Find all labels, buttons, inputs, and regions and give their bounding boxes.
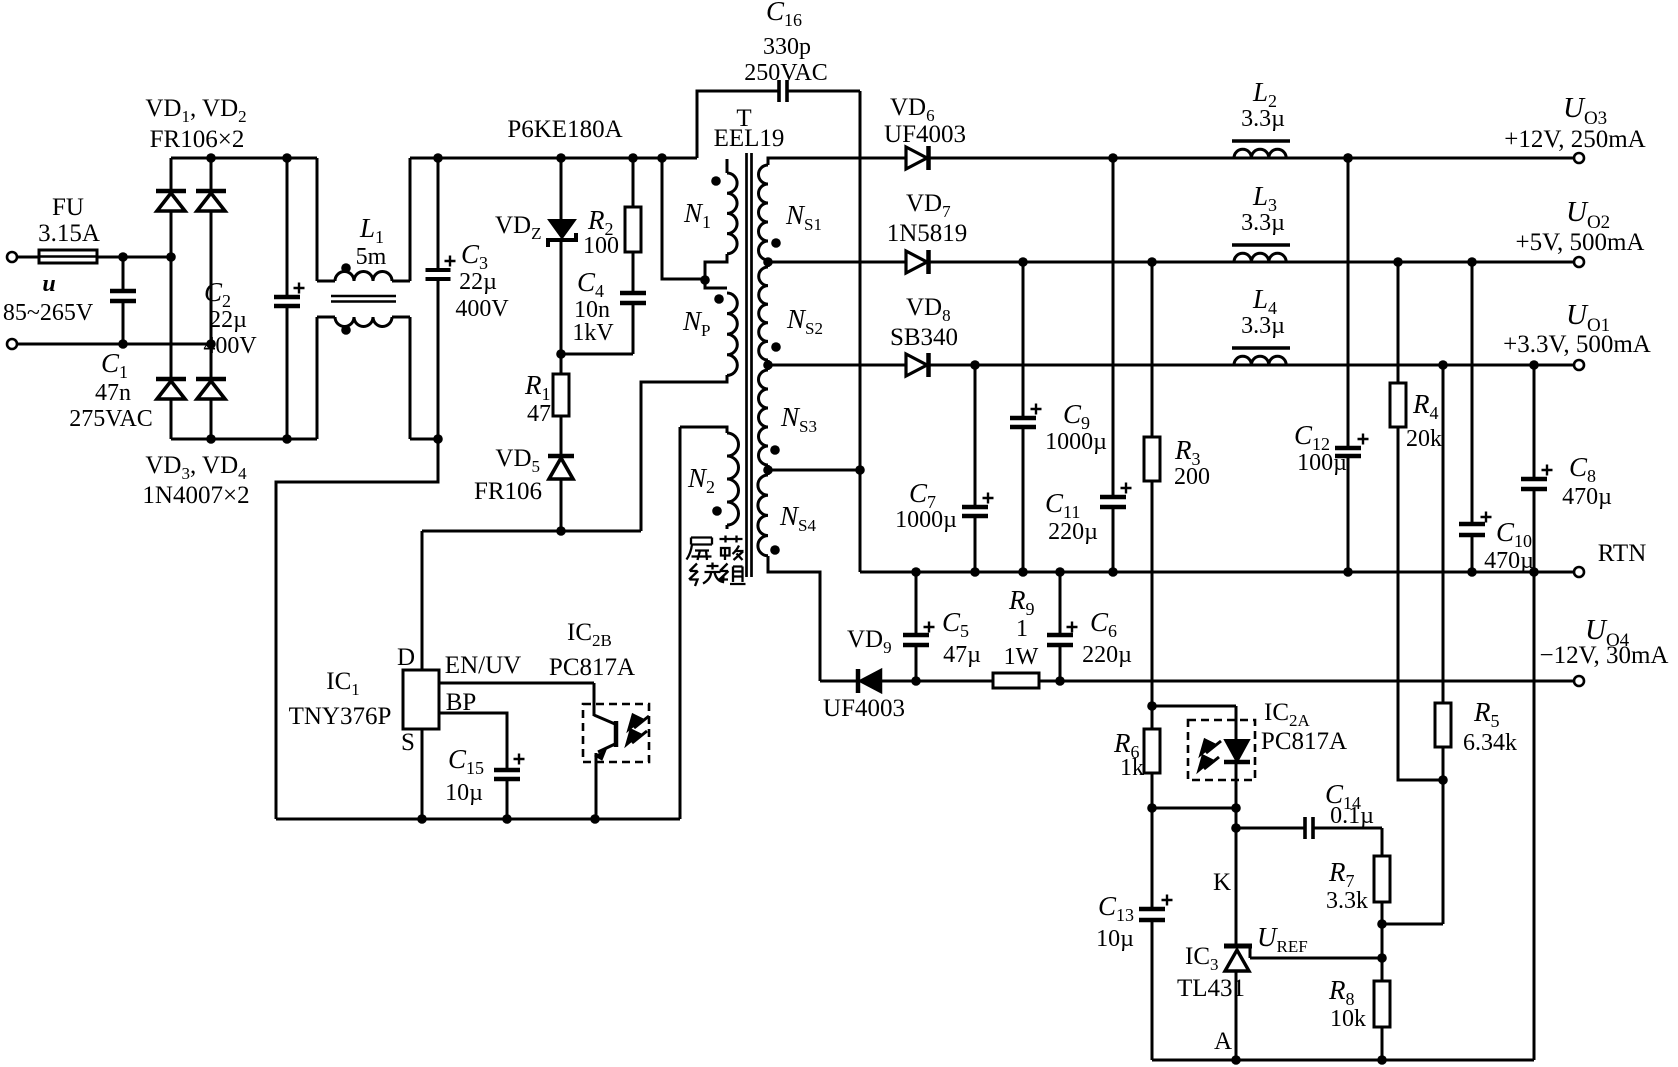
wire R4 to R5 node [1398,427,1443,780]
capacitor C13 10u [1151,808,1154,909]
diode VD1 [156,189,186,194]
L2 core bar [1232,139,1290,142]
node S [417,814,427,824]
inductor L2 3.3u [1233,157,1235,159]
svg-text:1000µ: 1000µ [1045,429,1107,455]
diode VD5 FR106 [548,454,574,459]
wire NS3/NS4 to RTN drop [768,469,860,472]
node UREF [1377,953,1387,963]
svg-text:3.3µ: 3.3µ [1241,106,1285,132]
node C12 bottom [1343,567,1353,577]
svg-text:22µ: 22µ [459,269,497,295]
node NS3/NS4 [763,465,773,475]
node R6 top [1147,701,1157,711]
wire to R5 chain [1382,923,1443,926]
NP polarity dot [714,294,724,304]
wire R6 to node [1151,773,1154,808]
terminal UO4 [1574,676,1584,686]
wire NS1-NS2 junction [767,260,770,267]
L4 core bar [1232,346,1290,349]
node C1 top [118,252,128,262]
svg-text:250VAC: 250VAC [744,60,828,86]
svg-text:330p: 330p [763,34,811,60]
wire NS4 path to VD9 [820,680,858,683]
wire BP to C15 [439,713,507,770]
wire NP bottom to drain line [641,375,727,531]
wire VDZ to node [560,240,563,354]
svg-text:470µ: 470µ [1562,484,1612,510]
resistor R4 20k [1390,383,1406,427]
svg-text:0.1µ: 0.1µ [1330,803,1374,829]
wire VD9 to R9 [881,680,993,683]
wire R4 from +5V [1397,262,1400,383]
capacitor C2 22u 400V [286,158,289,297]
node LED cathode [1231,803,1241,813]
wire -12V line [1039,680,1573,683]
LED IC2A [1235,706,1238,740]
diode VD8 SB340 [906,354,927,376]
wire N2 open stub [726,525,729,529]
node C10 top [1467,257,1477,267]
svg-text:6.34k: 6.34k [1463,730,1517,756]
wire fuse to bridge node [97,256,171,259]
wire R5 bottom [1442,747,1445,924]
wire N1 bottom to NP top [705,254,727,288]
capacitor C1 47n 275VAC [122,257,125,291]
wire feedback ground rail [1152,1059,1534,1062]
node R6 bottom [1147,803,1157,813]
node R4/R5 [1438,775,1448,785]
svg-text:220µ: 220µ [1082,642,1132,668]
diode VD4 [196,377,226,382]
svg-text:1: 1 [1016,616,1028,642]
node R4 top [1393,257,1403,267]
svg-text:+5V, 500mA: +5V, 500mA [1516,229,1645,256]
wire S to ground rail [421,729,424,819]
node C3 bottom [433,434,443,444]
node C6 top [1055,567,1065,577]
svg-text:1W: 1W [1004,644,1039,670]
shunt regulator IC3 TL431 [1224,944,1252,949]
svg-text:FR106×2: FR106×2 [150,126,245,153]
capacitor C14 0.1u [1303,817,1307,839]
wire TL431 anode [1235,971,1238,1060]
wire VD4 column [210,344,213,379]
node K branch [1231,823,1241,833]
wire +5V rail [768,261,1573,264]
node NS2/NS3 [763,360,773,370]
N1 polarity dot [711,176,721,186]
node bridge AC1 [166,252,176,262]
wire L1 bottom-right lead [392,316,410,319]
resistor R6 1k [1144,729,1160,773]
transformer core line 2 [750,153,753,577]
svg-text:+12V, 250mA: +12V, 250mA [1504,126,1645,153]
node C2 top [282,153,292,163]
resistor R7 3.3k [1374,856,1390,902]
svg-text:PC817A: PC817A [1261,728,1347,755]
wire +3.3V rail [768,364,1573,367]
svg-text:275VAC: 275VAC [69,406,153,432]
wire L1 bottom-left lead [316,317,319,439]
svg-text:100: 100 [583,233,619,259]
diode VD7 1N5819 [906,251,927,273]
node clamp mid [556,349,566,359]
NS3 polarity dot [770,445,780,455]
capacitor C10 470u [1471,262,1474,524]
node on RTN drop [855,465,865,475]
svg-text:VD3, VD4: VD3, VD4 [145,452,247,483]
svg-text:47µ: 47µ [943,642,981,668]
terminal UO2 [1574,257,1584,267]
terminal UO3 [1574,153,1584,163]
node C15 bottom [502,814,512,824]
node R5 top [1438,360,1448,370]
svg-text:VD1, VD2: VD1, VD2 [145,95,246,126]
wire R7 to R8 [1381,902,1384,981]
diode VD9 UF4003 [856,669,861,693]
node VD4 bottom [206,434,216,444]
optocoupler IC2A dashed box [1188,720,1255,780]
wire DC+ rail (bridge) [171,157,317,160]
svg-text:470µ: 470µ [1484,548,1534,574]
node VD5 drain [556,526,566,536]
phototransistor IC2B [593,683,596,716]
node C5 bottom [911,676,921,686]
IC2B light arrows [627,715,649,744]
svg-text:A: A [1214,1028,1232,1055]
svg-text:47: 47 [527,401,551,427]
resistor R5 6.34k [1435,703,1451,747]
svg-text:85~265V: 85~265V [3,300,94,326]
wire VD3 column [170,257,173,379]
diode VD6 UF4003 [906,147,927,169]
capacitor C12 100u [1347,158,1350,448]
svg-text:EN/UV: EN/UV [445,652,521,679]
wire HV+ rail [410,157,697,160]
wire R8 bottom [1381,1027,1384,1060]
label 绕组 (winding) [689,563,746,587]
node R7/R5 [1377,919,1387,929]
wire L1 bottom to C3 node [410,438,438,441]
capacitor C5 47u [915,572,918,635]
winding NS2 [759,267,768,360]
svg-text:RTN: RTN [1598,540,1647,567]
node C9 top [1018,257,1028,267]
node C7 bottom [970,567,980,577]
NS1 polarity dot [771,238,781,248]
inductor L1 bottom winding [335,317,392,327]
wire C4 bottom to clamp node [561,353,633,356]
svg-text:220µ: 220µ [1048,519,1098,545]
svg-text:3.3µ: 3.3µ [1241,313,1285,339]
winding NS3 [759,370,769,465]
svg-text:400V: 400V [455,296,509,322]
svg-text:1N4007×2: 1N4007×2 [142,482,249,509]
wire input line2 [17,343,211,346]
wire NS2-NS3 junction [767,360,770,370]
svg-text:P6KE180A: P6KE180A [507,116,622,143]
node bridge AC2 [206,339,216,349]
L1 core line lower [331,300,396,303]
svg-text:100µ: 100µ [1297,450,1347,476]
capacitor C3 22u 400V [437,158,440,270]
wire N1 top stub [726,159,729,173]
node TL431 anode [1231,1055,1241,1065]
wire VD2 column top [210,158,213,191]
node NS1/NS2 [763,257,773,267]
node C5 top [911,567,921,577]
svg-text:EEL19: EEL19 [714,125,785,152]
svg-text:K: K [1213,869,1231,896]
input terminal lower [7,339,17,349]
wire RTN rail [860,571,1573,574]
svg-text:10k: 10k [1330,1006,1366,1032]
svg-text:200: 200 [1174,464,1210,490]
node R3 top [1147,257,1157,267]
wire drain to IC1 [421,531,424,670]
svg-text:47n: 47n [95,380,131,406]
capacitor C7 1000u [974,365,977,507]
svg-text:FR106: FR106 [474,478,542,505]
wire L1 top-left lead [316,158,319,281]
winding NP [727,293,737,375]
svg-text:3.3µ: 3.3µ [1241,210,1285,236]
wire VD4 anode to rail [210,399,213,439]
wire VDZ from rail [560,158,563,220]
node N1-NP junction [700,275,710,285]
svg-text:−12V, 30mA: −12V, 30mA [1540,642,1669,669]
wire C16 right down to RTN [859,91,862,572]
wire R1 to VD5 [560,416,563,456]
winding NS4 [758,475,768,556]
node C12 top [1343,153,1353,163]
capacitor C9 1000u [1022,262,1025,418]
svg-text:1k: 1k [1120,755,1144,781]
capacitor C8 470u [1533,365,1536,479]
wire return jog to IC1 rail [276,439,438,819]
node R8 bottom [1377,1055,1387,1065]
resistor R9 1 1W [993,673,1039,688]
wire VD5 to drain line [560,479,563,531]
L1 polarity dot top [341,263,351,273]
wire VD1 column top [170,158,173,191]
L3 core bar [1232,243,1290,246]
wire EN/UV to opto [439,682,594,685]
node VD2 top [206,153,216,163]
wire to R6 [1151,706,1154,729]
resistor R8 10k [1374,981,1390,1027]
node C10 bottom [1467,567,1477,577]
svg-text:+3.3V, 500mA: +3.3V, 500mA [1503,331,1651,358]
winding N1 [727,173,737,254]
node opto emitter [590,814,600,824]
wire primary ground rail [276,818,680,821]
wire to C14 [1236,827,1305,830]
node C2 bottom [282,434,292,444]
wire C14 to R7 [1381,828,1384,856]
LED light arrows [1199,740,1221,770]
L1 core line upper [331,295,396,298]
diode VD3 [156,377,186,382]
wire VD1 anode [170,211,173,257]
inductor L3 3.3u [1233,261,1235,263]
wire shield to source rail [679,427,682,819]
svg-text:5m: 5m [356,244,387,270]
resistor R3 200 [1144,437,1160,481]
wire NS4 bottom to VD9 [768,556,820,681]
node C11 top [1108,153,1118,163]
svg-text:1000µ: 1000µ [895,507,957,533]
inductor L4 3.3u [1233,364,1235,366]
label 屏蔽 (shield) [687,536,744,561]
svg-text:3.15A: 3.15A [38,220,100,247]
svg-text:UF4003: UF4003 [884,121,966,148]
wire N2 top lead [680,427,727,433]
node VDZ top [556,153,566,163]
wire DC- rail (bridge) [171,438,317,441]
input terminal upper [7,252,17,262]
L1 polarity dot bottom [341,325,351,335]
svg-text:20k: 20k [1406,426,1442,452]
wire R2 to C4 [632,252,635,293]
svg-text:SB340: SB340 [890,324,958,351]
svg-text:u: u [42,271,55,297]
node C7 top [970,360,980,370]
svg-text:3.3k: 3.3k [1326,888,1368,914]
node C11 bottom [1108,567,1118,577]
resistor R2 100 [625,207,641,252]
wire NS3-NS4 junction [767,465,770,475]
fuse FU 3.15A [39,250,97,263]
capacitor C4 10n 1kV [620,291,646,296]
wire L1 top-right lead [392,280,410,283]
svg-text:400V: 400V [203,333,257,359]
wire input line1 to fuse [17,256,39,259]
node C6 bottom [1055,676,1065,686]
svg-text:PC817A: PC817A [549,654,635,681]
transformer core line 1 [745,153,748,577]
svg-text:TNY376P: TNY376P [289,703,392,730]
node C8 top [1529,360,1539,370]
wire R3 down to feedback [1151,481,1154,706]
capacitor C15 10u [494,768,520,773]
svg-text:1kV: 1kV [572,320,614,346]
node to NP [657,153,667,163]
svg-text:10µ: 10µ [1096,926,1134,952]
inductor L1 top winding [335,272,392,282]
diode VD2 [196,189,226,194]
capacitor C11 220u [1112,158,1115,497]
wire LED cathode link [1152,807,1236,810]
winding N2 (shield) [727,433,739,525]
NS2 polarity dot [771,342,781,352]
optocoupler IC2B dashed box [583,704,649,762]
IC U1 TNY376P box [403,670,439,729]
node C8/RTN [1529,567,1539,577]
svg-text:S: S [401,729,415,756]
winding NS1 [759,165,769,260]
svg-text:D: D [397,644,415,671]
resistor R1 47 [553,374,569,416]
node C1 bottom [118,339,128,349]
terminal RTN [1574,567,1584,577]
svg-text:1N5819: 1N5819 [887,220,968,247]
wire NS1 top / +12V rail [768,158,1573,165]
node R2 top [628,153,638,163]
wire UREF [1250,957,1382,960]
svg-text:10µ: 10µ [445,780,483,806]
wire rail to N1/NP node [662,158,705,279]
wire drain line [422,530,641,533]
wire VD2 anode [210,211,213,344]
node C3 top [433,153,443,163]
wire VD3 anode to rail [170,399,173,439]
capacitor C16 330p 250VAC [697,91,779,158]
svg-text:UF4003: UF4003 [823,695,905,722]
svg-text:FU: FU [52,194,84,221]
wire R3 from +5V [1151,262,1154,437]
capacitor C6 220u [1059,572,1062,635]
terminal UO1 [1574,360,1584,370]
zener VDZ P6KE180A [549,220,575,238]
N2 polarity dot [712,506,722,516]
svg-text:22µ: 22µ [209,307,247,333]
wire R5 from +3.3V [1442,365,1445,703]
wire to LED anode [1152,705,1236,708]
NS4 polarity dot [770,545,780,555]
node C9 bottom [1018,567,1028,577]
